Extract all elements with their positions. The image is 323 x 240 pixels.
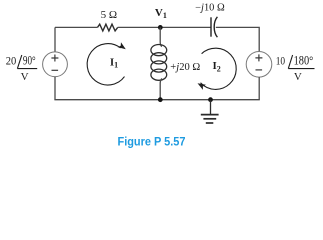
ground bar 1 (201, 114, 219, 116)
node dot bottom of inductor (158, 97, 163, 102)
label 10/180 V (276, 53, 315, 83)
wire: inductor branch bottom lead (160, 79, 162, 100)
source V1 circle (left, 20/90 V) (43, 52, 68, 77)
wire: left branch top (54, 27, 56, 52)
node dot ground junction (208, 97, 213, 102)
inductor +j20 ohm coil loop 1 (151, 45, 167, 56)
minus sign of right source (256, 69, 263, 71)
svg-text:90°: 90° (23, 53, 36, 67)
mesh current I2 arc (201, 48, 237, 89)
plus sign of left source (51, 55, 58, 62)
wire: top-right segment and right corner down to source (216, 27, 259, 51)
capacitor -j10 ohm : left plate (210, 17, 212, 36)
svg-text:5 Ω: 5 Ω (101, 9, 118, 21)
svg-text:+j20 Ω: +j20 Ω (170, 61, 200, 73)
wire: left branch bottom (54, 77, 56, 100)
inductor +j20 ohm coil loop 3 (151, 61, 167, 72)
ground bar 2 (203, 118, 216, 120)
capacitor -j10 ohm : curved plate (214, 17, 217, 37)
mesh current I1 arrowhead (118, 42, 128, 52)
svg-text:Figure P 5.57: Figure P 5.57 (118, 135, 186, 149)
svg-text:180°: 180° (294, 53, 314, 67)
svg-text:V: V (294, 71, 302, 83)
svg-text:10: 10 (276, 53, 285, 67)
inductor +j20 ohm coil loop 4 (151, 69, 167, 80)
svg-text:20: 20 (6, 53, 16, 67)
bottom wire (54, 99, 259, 101)
node V1 dot (158, 25, 163, 30)
ground stub (210, 100, 212, 115)
source V2 circle (right, 10/180 V) (246, 52, 272, 78)
minus sign of left source (52, 69, 59, 71)
wire: top-left horizontal segment (55, 26, 98, 28)
plus sign of right source (255, 54, 262, 61)
mesh current I1 arc (87, 44, 124, 85)
mesh current I2 arrowhead (196, 81, 206, 90)
ground bar 3 (206, 122, 214, 124)
wire: inductor branch top lead (160, 27, 162, 46)
wire: right source to bottom wire (258, 77, 260, 100)
svg-text:V: V (21, 71, 29, 83)
svg-text:−j10 Ω: −j10 Ω (195, 2, 225, 13)
label 20/90 V (6, 53, 37, 83)
resistor 5 ohm (98, 24, 118, 31)
wire: top-middle segment (resistor to capacitor) (118, 26, 211, 28)
inductor +j20 ohm coil loop 2 (151, 53, 167, 64)
